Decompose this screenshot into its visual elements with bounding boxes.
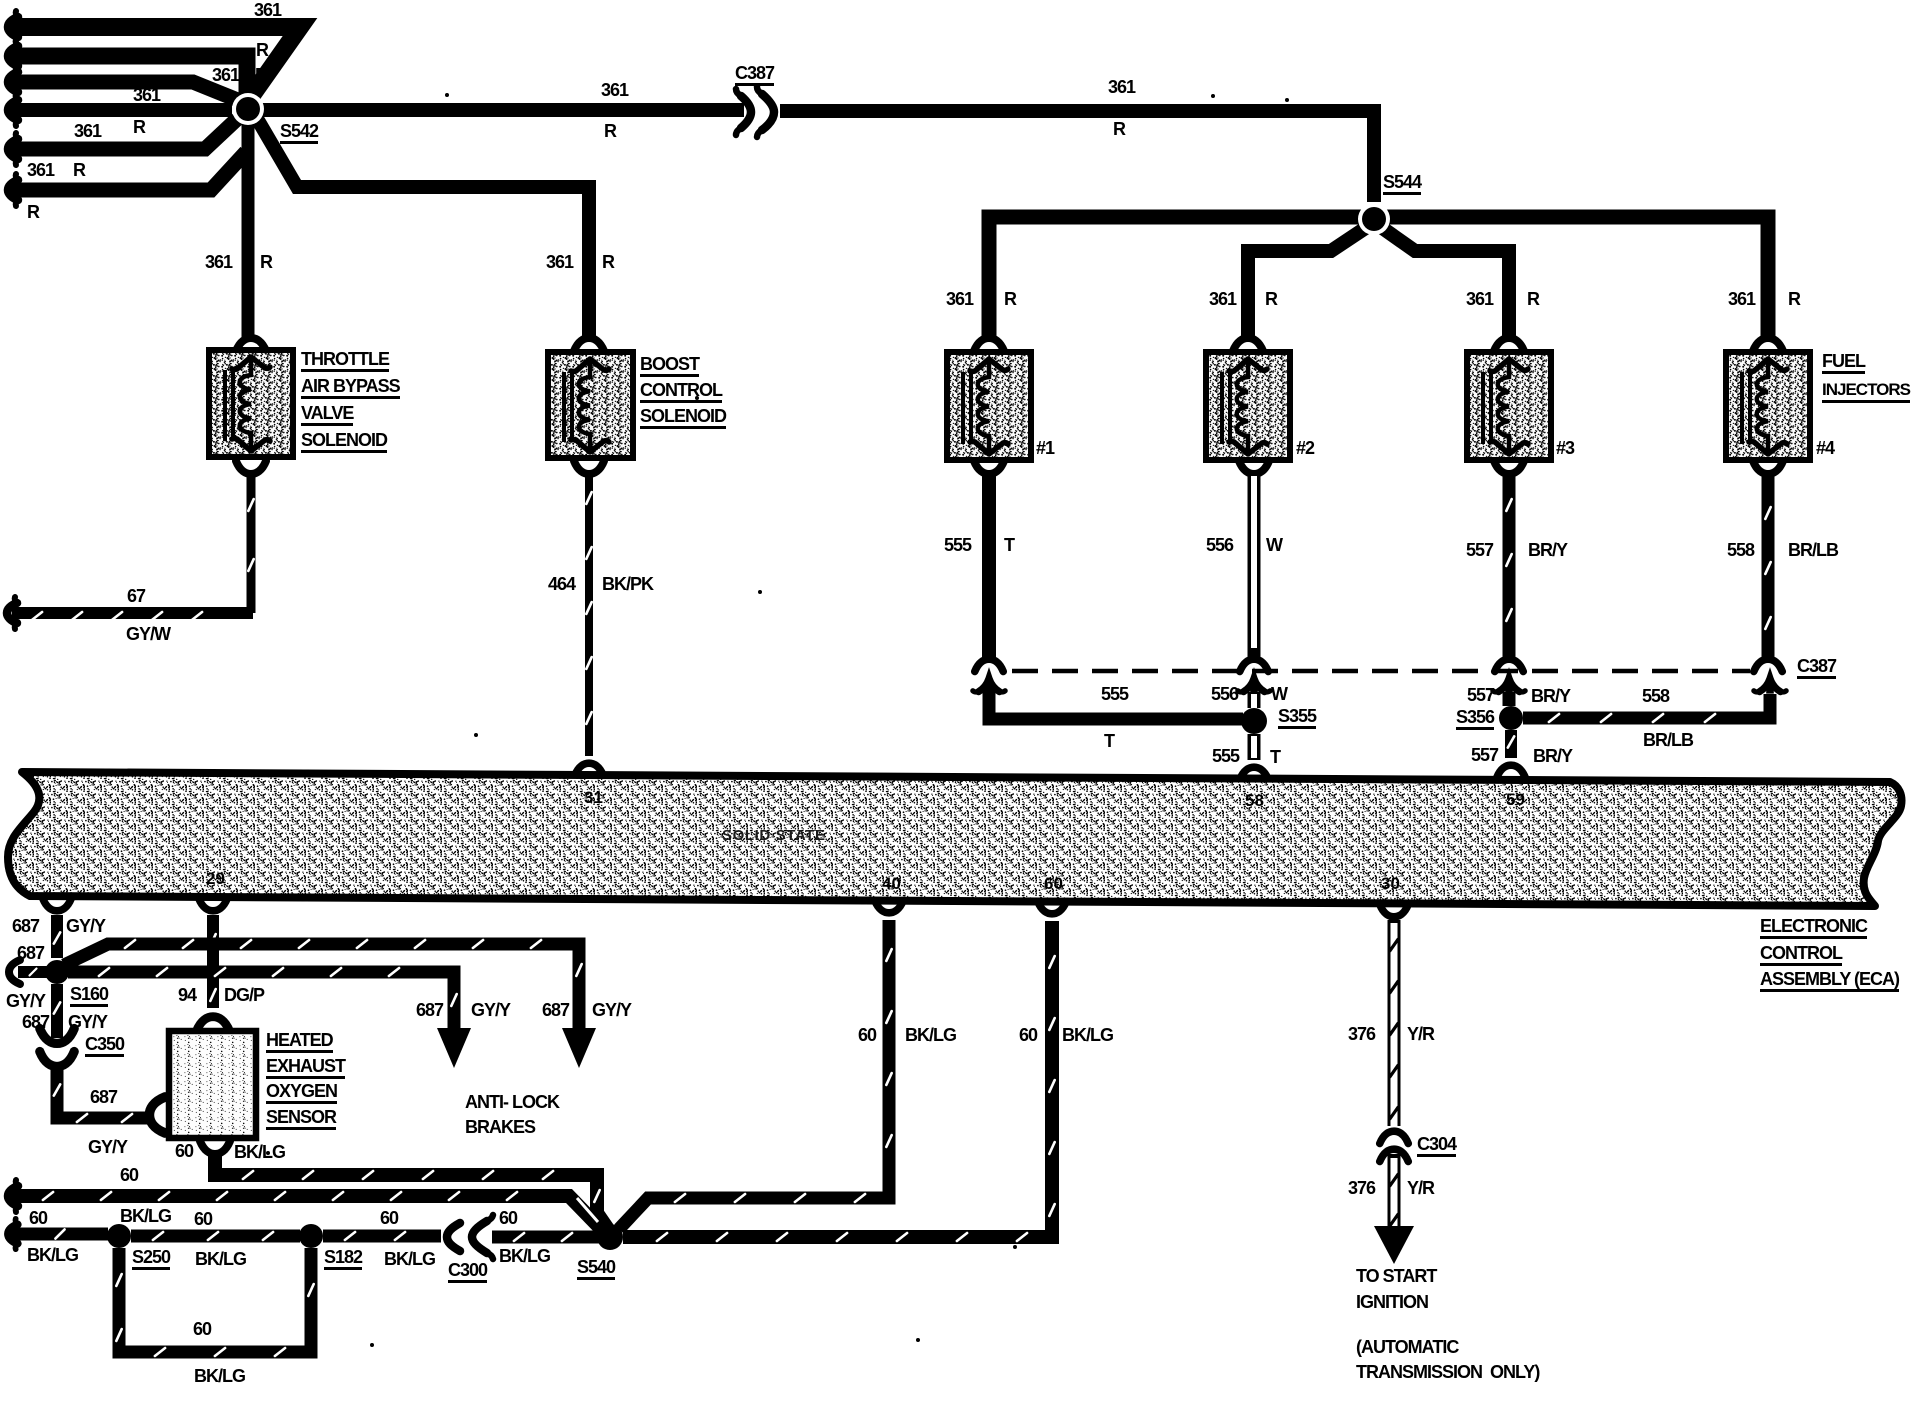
connector C300 inline [447,1215,493,1259]
wire W2 361 R feeder 2 from left edge [8,40,18,72]
connector at ECA pin 58 [1240,767,1269,779]
connector at ECA pin 40 [875,901,904,913]
connector at fuel injector 2 pin (top) [1233,338,1263,351]
connector at boost solenoid pin (top) [574,338,604,351]
connector C387 injector1 side [975,659,1004,671]
wire 361 R from S542 right to connector C387 [256,103,744,117]
junction S355 [1241,708,1267,734]
wire 376 Y/R from ECA pin 30 to C304 (hollow with black hatches) [1388,920,1401,1126]
white separator between diagonals at S540 [577,1198,598,1222]
chevron below dashed line injector1 [973,678,1005,693]
fork connector into HEGO sensor top [197,1017,230,1031]
wire 555 T to junction S355 [989,690,1243,719]
wire 67 GY/W from throttle solenoid to left edge [247,474,256,613]
connector at fuel injector 3 pin (top) [1494,338,1524,351]
wire W6 361 R feeder 6 from left edge [8,174,18,206]
wire 687 GY/Y from C350 to HEGO sensor [57,1064,148,1118]
wire 556 W stub to S355 (hollow) [1248,692,1261,708]
junction S356 [1499,706,1523,730]
wire 361 R S544 to fuel injector 1 [989,217,1366,338]
wire 558 BR/LB from S356 to C387 [1523,694,1770,718]
junction S540 [597,1224,623,1250]
connector at ECA pin 31 [575,763,604,775]
dashed line connector C387 (injector harness) [1012,669,1750,674]
scan speckle dots [445,93,449,97]
wire 557 BR/Y from S356 down to ECA pin 59 [1505,730,1517,758]
arrow to anti-lock brakes (left) [437,1028,471,1068]
wire 361 R S544 to fuel injector 3 [1381,227,1509,338]
wire 555 T from injector 1 down [982,474,996,658]
junction S544 [1358,203,1390,235]
connector below fuel injector 4 [1753,461,1783,474]
wire 687 GY/Y from band to junction S160 [51,915,63,958]
throttle air bypass valve solenoid box [209,350,293,457]
connector C387 injector4 side [1754,659,1783,671]
wire 557 BR/Y from injector 3 down [1503,474,1516,658]
wire 361 R from S542 to boost control solenoid [252,110,589,338]
connector under band for wire 687 GY/Y [43,899,72,911]
wire 60 BK/LG S250 to S182 [131,1230,300,1243]
wire 361 R S544 to fuel injector 4 [1382,217,1768,338]
connector C304 upper half [1380,1131,1409,1143]
wire 60 BK/LG from S540 right then up to ECA pin 60 [623,921,1052,1237]
wire 361 R S544 to fuel injector 2 [1248,227,1367,338]
wire 60 BK/LG long feeder from left edge to S540 [8,1180,18,1212]
connector at fuel injector 1 pin (top) [974,338,1004,351]
fuel injector coil #4 box [1726,352,1810,460]
wire 464 BK/PK from boost solenoid down to ECA pin 31 [585,474,593,756]
connector at ECA pin 59 [1497,765,1526,777]
connector at ECA pin 30 [1380,905,1409,917]
connector at ECA pin 29 [199,899,228,911]
wire W4 361 R feeder 4 from left edge [8,94,18,126]
wire 60 BK/LG from HEGO sensor to junction S540 [215,1154,608,1229]
connector at fuel injector 4 pin (top) [1753,338,1783,351]
wire 60 BK/LG from S540 up-right to ECA pin 40 [619,920,889,1229]
wire 558 BR/LB from injector 4 down [1762,474,1775,658]
chevron below dashed line injector4 branch [1754,678,1786,693]
fuel injector coil #1 box [947,352,1031,460]
junction S160 [45,960,69,984]
wire 94 DG/P from pin 29 to heated exhaust oxygen sensor [207,915,219,1008]
connector C350 upper half [40,1029,75,1044]
fork connector into HEGO sensor left [149,1097,165,1133]
wire 555 T from S355 down to ECA pin 58 (hollow) [1248,734,1261,760]
connector C304 lower half [1380,1149,1409,1161]
wire 60 BK/LG short feeder from left edge to S250 [8,1219,18,1249]
heated exhaust oxygen sensor box [169,1031,256,1138]
wire 687 GY/Y from S160 down to C350 [51,984,63,1038]
chevron below dashed line injector3 [1493,678,1525,693]
connector below fuel injector 3 [1494,461,1524,474]
ECA solid state band [8,772,1902,906]
wire 60 BK/LG S182 to C300 [323,1230,441,1243]
wire 687 GY/Y from S160 right (to anti-lock brakes left arrow) [68,972,454,1028]
fuel injector coil #3 box [1467,352,1551,460]
wire 557 BR/Y stub to junction S356 [1503,692,1516,706]
loop wire 60 BK/LG S250 to S182 via bottom [119,1248,311,1352]
wire 376 Y/R from C304 to start ignition arrow (hollow with black hatches) [1388,1154,1401,1228]
connector below HEGO sensor [200,1141,230,1154]
wire 556 W from injector 2 down (hollow) [1248,474,1261,658]
connector at ECA pin 60 [1038,902,1067,914]
connector below throttle solenoid [236,461,266,474]
wire W5 361 R feeder 5 from left edge [8,133,18,165]
wire 687 GY/Y from S160 to left edge (arrow) [18,966,48,978]
junction S542 [232,93,264,125]
wire 687 GY/Y from S160 up-right then right (to anti-lock brakes right arrow) [64,944,579,1028]
connector C350 lower half [40,1052,75,1067]
connector C387 injector3 side [1495,659,1524,671]
connector C387 injector2 side [1240,659,1269,671]
connector below boost solenoid [574,461,604,474]
wire W3 361 R feeder 3 from left edge [8,66,18,98]
wire W1 361 R feeder 1 from left edge [8,11,18,43]
connector below fuel injector 1 [974,461,1004,474]
wire 361 R from S542 down to throttle air bypass valve solenoid [242,104,255,338]
boost control solenoid box [548,352,633,458]
junction S250 [107,1224,131,1248]
junction S182 [299,1224,323,1248]
wire 60 BK/LG C300 to S540 [492,1231,599,1244]
connector below fuel injector 2 [1239,461,1269,474]
arrow to anti-lock brakes (right) [562,1028,596,1068]
wire 361 R from C387 to S544 [780,111,1374,202]
fuel injector coil #2 box [1206,352,1290,460]
connector C387 inline (top) [736,87,774,137]
arrow to start ignition [1374,1226,1414,1264]
chevron below dashed line injector2 [1238,678,1270,693]
connector at throttle solenoid pin (top) [236,338,266,351]
